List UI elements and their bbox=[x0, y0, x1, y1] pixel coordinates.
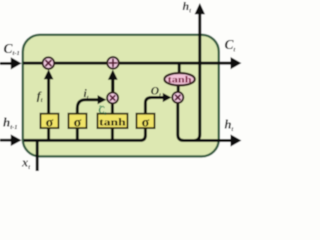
arrow from input multiply up into add gate bbox=[111, 80, 114, 93]
output gate multiply bbox=[172, 92, 183, 103]
wire: tanh oval down to output multiply bbox=[177, 85, 180, 92]
candidate column line (through tanh box up to input multiply) bbox=[111, 104, 114, 141]
svg-text:σ: σ bbox=[74, 115, 82, 130]
sigma box i bbox=[69, 114, 87, 128]
forget gate multiply bbox=[43, 57, 55, 69]
C_{t-1} input arrow bbox=[0, 62, 12, 65]
arrowhead into forget multiply bbox=[44, 69, 54, 79]
sigma box f bbox=[41, 114, 59, 128]
input gate path: up from sigma-i, curve right into input multiply bbox=[77, 100, 99, 141]
svg-text:tanh: tanh bbox=[99, 117, 126, 129]
C_t output arrowhead bbox=[231, 57, 242, 69]
output tanh oval bbox=[164, 73, 194, 85]
wire: cell line down into output tanh oval bbox=[178, 64, 181, 74]
h_t output path: down from output multiply, curve right, exit box bbox=[178, 103, 232, 141]
input gate multiply bbox=[107, 92, 118, 103]
cell container box bbox=[23, 35, 219, 157]
sigma box o bbox=[137, 114, 155, 128]
output gate path: from sigma-o top, curve right into output multiply bbox=[145, 98, 163, 114]
forget gate column line bbox=[47, 78, 50, 141]
svg-text:tanh: tanh bbox=[168, 76, 193, 86]
h_{t-1} input arrow bbox=[0, 139, 12, 142]
tanh box bbox=[98, 114, 128, 128]
h_t top branch: curve up from output line, exits box top bbox=[194, 14, 200, 141]
svg-text:σ: σ bbox=[46, 115, 54, 130]
x_t input line bbox=[36, 139, 39, 171]
svg-text:σ: σ bbox=[142, 115, 150, 130]
hidden state line (bottom) with curve up into sigma-o column bbox=[24, 114, 146, 141]
cell state line (top) bbox=[23, 62, 232, 65]
add gate bbox=[107, 57, 119, 69]
